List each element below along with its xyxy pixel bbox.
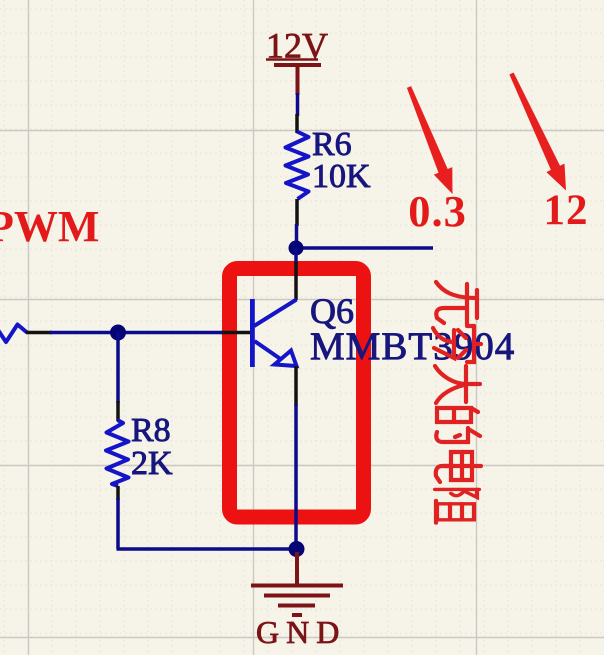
wire base node down to R8 <box>116 333 120 404</box>
power port 12V label underline <box>266 58 318 60</box>
pin Q6 emitter (black) <box>294 366 298 406</box>
wire stub to base node <box>50 331 222 335</box>
svg-text:0.3: 0.3 <box>408 186 467 236</box>
junction base node <box>110 325 126 341</box>
pin R6 bottom (black) <box>295 199 299 226</box>
power port 12V bar symbol <box>274 63 321 67</box>
wire R6 to collector node (blue) <box>295 224 299 249</box>
hanzi 电 <box>436 452 481 482</box>
pin left resistor (black) <box>26 331 52 335</box>
left resistor stub (partial, off-canvas) <box>0 324 27 342</box>
wire emitter down to ground node (blue) <box>294 404 298 550</box>
pin R8 top (black) <box>116 401 120 421</box>
resistor R8 <box>106 420 129 486</box>
junction collector node <box>289 241 304 256</box>
red arrow annotation 2 <box>509 73 566 191</box>
svg-text:2K: 2K <box>131 445 173 482</box>
svg-text:R8: R8 <box>131 412 171 449</box>
resistor R6 <box>286 132 309 200</box>
svg-text:GND: GND <box>256 614 346 650</box>
pin R8 bottom (black) <box>116 486 120 500</box>
svg-text:12: 12 <box>544 187 589 234</box>
wire collector node down (blue) <box>294 248 298 264</box>
pin Q6 base (black) <box>221 331 250 335</box>
transistor Q6 emitter arrowhead (open) <box>275 351 297 367</box>
transistor Q6 collector diagonal <box>254 300 297 327</box>
hanzi 大 <box>435 366 480 403</box>
svg-text:10K: 10K <box>312 158 371 195</box>
transistor Q6 symbol: base bar <box>250 299 255 367</box>
pin R6 top (black) <box>295 114 299 133</box>
svg-text:PWM: PWM <box>0 202 99 251</box>
hanzi 无 <box>436 282 477 324</box>
red vertical note 无穷大的电阻 (hand-drawn strokes, rotated 90deg) <box>433 282 481 523</box>
svg-text:MMBT3904: MMBT3904 <box>310 325 515 368</box>
hanzi 穷 <box>433 326 481 362</box>
wire collector node to right <box>296 246 433 250</box>
transistor Q6 emitter diagonal <box>255 341 283 360</box>
red arrow annotation 1 <box>407 86 453 194</box>
ground symbol bars <box>251 586 343 616</box>
hanzi 的 <box>436 408 480 442</box>
power stem wire (maroon) <box>296 65 300 95</box>
junction ground node <box>289 541 305 557</box>
wire 12V to R6 (blue) <box>296 93 300 116</box>
hanzi 阻 <box>435 489 479 523</box>
pin Q6 collector (black) <box>294 262 298 300</box>
wire R8 to ground rail <box>117 498 298 549</box>
red highlight rectangle around Q6 <box>230 269 364 518</box>
ground stem (maroon) <box>295 552 299 585</box>
